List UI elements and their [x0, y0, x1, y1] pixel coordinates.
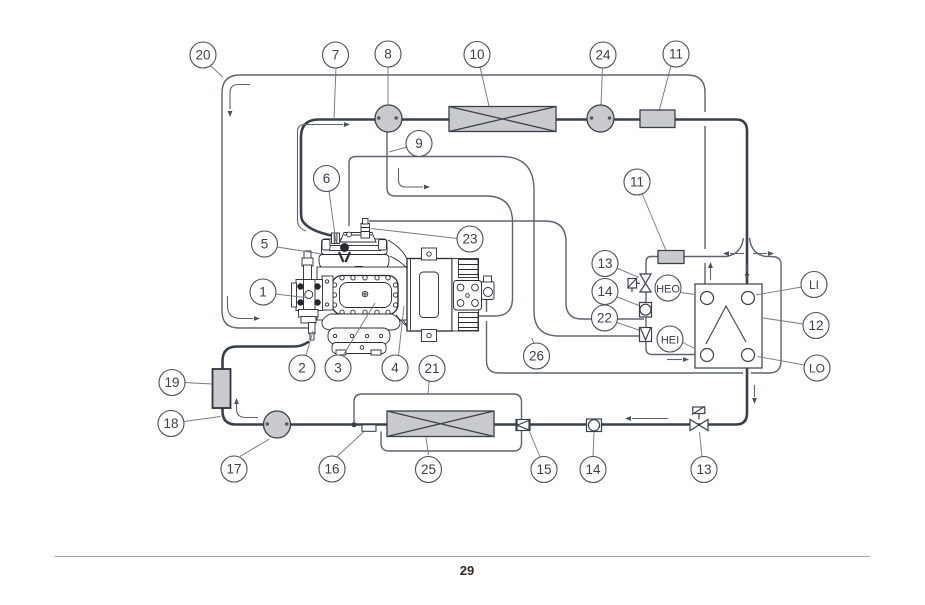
svg-text:5: 5 [261, 237, 269, 252]
condenser 10 [449, 107, 556, 132]
label 4 [382, 355, 408, 381]
wire discharge line thick (7) [301, 120, 747, 292]
svg-text:HEO: HEO [656, 284, 680, 296]
svg-text:22: 22 [597, 311, 612, 326]
sight glass 8 [375, 105, 402, 132]
svg-text:14: 14 [597, 284, 613, 299]
wire loop 26 (economizer vapor loop, thin) [487, 257, 782, 374]
label 12 [803, 313, 829, 339]
transition head to motor [388, 240, 407, 268]
motor housing (label 4) [407, 259, 452, 332]
wire arrow bottom line left [632, 418, 668, 420]
port LI [742, 292, 755, 305]
port LO [742, 349, 755, 362]
oil sump upper [322, 314, 400, 330]
fitting (label 6) on head [332, 233, 340, 244]
wire loop 20 (suction/economizer return loop, thin) [222, 75, 705, 328]
label 15 [531, 457, 557, 483]
expansion valve 22 [640, 328, 652, 342]
wire arrow HEI right [667, 359, 682, 361]
label LO [804, 355, 830, 381]
wire arrow HEO up [710, 268, 712, 280]
parts below unloader (label 2) [299, 310, 319, 318]
label 17 [221, 456, 247, 482]
wire arrow LO down [754, 385, 756, 397]
wire economizer feed line through filter 11b and valves to HEI [646, 257, 771, 355]
wire tee fillets at liquid line [726, 238, 766, 257]
svg-text:3: 3 [334, 361, 342, 376]
label 13 bottom [691, 457, 717, 483]
sight glass 14 (economizer) [640, 303, 652, 318]
chevron inside HX [706, 306, 746, 344]
wire arrow LI down [746, 264, 748, 272]
port HEO [701, 292, 714, 305]
label 14 econ [592, 279, 618, 305]
label 21 [419, 356, 445, 382]
svg-text:HEI: HEI [661, 335, 679, 347]
sight glass 17 [264, 411, 291, 438]
label 6 [314, 166, 340, 192]
label 20 [190, 42, 216, 68]
svg-text:LI: LI [809, 278, 819, 292]
svg-text:16: 16 [324, 462, 339, 477]
label 11 top [663, 41, 689, 67]
svg-text:2: 2 [298, 361, 306, 376]
fitting above unloader [304, 251, 311, 259]
valve 13 (economizer, vertical) [628, 274, 651, 292]
svg-text:8: 8 [384, 47, 392, 62]
label 16 [319, 456, 345, 482]
filter drier 19 [213, 369, 231, 408]
label HEO [655, 275, 681, 301]
svg-text:13: 13 [696, 462, 711, 477]
head bottom center bolt [355, 267, 364, 276]
svg-text:21: 21 [424, 361, 439, 376]
svg-text:1: 1 [259, 285, 267, 300]
wire line 26 (compressor port to TXV equalizer, thin) [349, 157, 640, 337]
motor end bell [452, 259, 479, 332]
oil sump lower [328, 328, 390, 344]
svg-text:24: 24 [595, 48, 611, 63]
label 11 mid [624, 169, 650, 195]
valve 13 (bottom) [690, 407, 708, 431]
svg-text:13: 13 [597, 256, 612, 271]
label 19 [159, 370, 185, 396]
svg-text:6: 6 [323, 171, 331, 186]
label 5 [252, 231, 278, 257]
svg-text:11: 11 [669, 47, 683, 62]
svg-text:LO: LO [809, 362, 825, 376]
label 8 [375, 41, 401, 67]
wire arrow on line 9 (right) [399, 168, 424, 187]
sight glass 14 (bottom) [587, 419, 602, 432]
wire loop 21 (bypass around evaporator, thin) [354, 394, 522, 451]
crankcase side cover (label 3) [332, 276, 398, 315]
svg-text:14: 14 [585, 462, 601, 477]
heat exchanger 12 [695, 284, 762, 368]
filter drier 11 (economizer) [658, 251, 684, 264]
node junction dot at evaporator bypass tee [351, 422, 356, 427]
wire arrow tee left [730, 253, 744, 255]
label 26 [524, 343, 550, 369]
svg-text:29: 29 [460, 563, 474, 578]
check valve 15 [516, 420, 530, 431]
evaporator 25 [387, 411, 494, 437]
label 25 [416, 457, 442, 483]
fitting 23 on head [361, 224, 370, 239]
label 23 [457, 226, 483, 252]
wire arrow in discharge bend (right) [298, 125, 344, 232]
svg-text:9: 9 [415, 136, 423, 151]
label 10 [464, 42, 490, 68]
filter drier 11 (top) [640, 110, 675, 128]
page footer rule [55, 556, 870, 558]
label 14 bottom [580, 457, 606, 483]
label 3 [325, 355, 351, 381]
label 22 [592, 305, 618, 331]
svg-text:17: 17 [226, 462, 241, 477]
svg-text:18: 18 [163, 416, 178, 431]
sight glass 24 [587, 105, 614, 132]
svg-text:7: 7 [332, 48, 340, 63]
wire suction bottom line thick [223, 342, 748, 425]
label 1 [250, 279, 276, 305]
restrictor 16 [362, 425, 376, 432]
label 13 econ [592, 251, 618, 277]
oil pump [482, 282, 495, 300]
sump bottom plate [332, 343, 386, 354]
svg-text:25: 25 [421, 462, 436, 477]
port HEI [701, 349, 714, 362]
svg-text:12: 12 [808, 318, 823, 333]
label 2 [289, 355, 315, 381]
svg-text:15: 15 [536, 462, 551, 477]
label 24 [590, 42, 616, 68]
label HEI [657, 326, 683, 352]
capacity unloader (label 1) [296, 280, 323, 311]
svg-text:10: 10 [469, 47, 484, 62]
left flange plate [322, 276, 333, 310]
crankcase body [317, 267, 407, 320]
svg-text:4: 4 [391, 361, 399, 376]
wire arrow tee right [753, 253, 767, 255]
wire arrow loop20 bottom-left (right) [228, 296, 254, 319]
wire line 9 (oil return from sight glass 8, thin) [387, 130, 513, 316]
svg-text:19: 19 [164, 375, 179, 390]
label 7 [323, 42, 349, 68]
svg-text:23: 23 [462, 232, 477, 247]
svg-text:20: 20 [195, 48, 210, 63]
compressor cylinder head [319, 255, 389, 272]
svg-text:11: 11 [630, 175, 644, 190]
label 9 [406, 131, 432, 157]
wire arrow top-left (down) [230, 85, 250, 110]
bolt at line 26 connection [347, 232, 352, 237]
wire arrow near filter 19 (up) [237, 404, 259, 418]
svg-text:26: 26 [529, 349, 544, 364]
head center hub and wings [341, 244, 349, 252]
wire line 23 (sensor line, thin) [370, 221, 644, 319]
label 18 [158, 411, 184, 437]
label LI [801, 272, 827, 298]
